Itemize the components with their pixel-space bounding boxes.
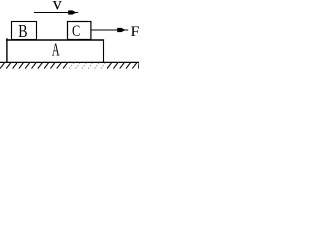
block B xyxy=(12,22,37,40)
svg-text:A: A xyxy=(52,41,60,60)
force arrow F xyxy=(92,28,129,32)
svg-text:F: F xyxy=(131,24,140,40)
svg-text:C: C xyxy=(72,23,80,41)
plank A right edge xyxy=(103,40,105,63)
plank A left edge xyxy=(6,38,8,62)
svg-text:v: v xyxy=(53,0,62,14)
ground line xyxy=(0,61,139,63)
block C xyxy=(68,22,91,40)
ground hatching xyxy=(0,63,139,69)
plank A top edge xyxy=(6,39,104,41)
svg-text:B: B xyxy=(18,22,27,41)
velocity arrow v xyxy=(34,10,78,14)
